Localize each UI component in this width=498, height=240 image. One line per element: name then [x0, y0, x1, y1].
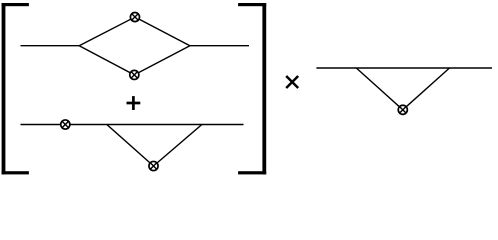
- wire: second diagram triangle right edge: [154, 125, 202, 167]
- crossed-circle insertion: on the propagator of second diagram: [61, 120, 70, 129]
- wire: right external leg of diamond diagram: [190, 45, 249, 47]
- wire: horizontal propagator of third diagram: [316, 67, 492, 69]
- crossed-circle insertion: top vertex of diamond: [130, 12, 139, 21]
- multiplication sign: [286, 76, 298, 88]
- crossed-circle insertion: bottom vertex of diamond: [130, 70, 139, 79]
- wire: left external leg of diamond diagram: [21, 45, 80, 47]
- wire: diamond upper-right edge: [135, 17, 190, 46]
- wire: horizontal propagator of second diagram: [21, 124, 244, 126]
- plus sign between the two bracketed diagrams: [127, 96, 141, 110]
- crossed-circle insertion: apex of third diagram triangle: [398, 105, 407, 114]
- wire: diamond upper-left edge: [79, 17, 135, 46]
- wire: diamond lower-left edge: [79, 46, 134, 75]
- crossed-circle insertion: apex of second diagram triangle: [149, 161, 158, 170]
- wire: third diagram triangle left edge: [356, 68, 403, 110]
- wire: second diagram triangle left edge: [107, 125, 154, 167]
- wire: third diagram triangle right edge: [403, 68, 450, 110]
- wire: diamond lower-right edge: [134, 46, 190, 75]
- left square bracket: [2, 3, 29, 174]
- right square bracket: [238, 3, 266, 174]
